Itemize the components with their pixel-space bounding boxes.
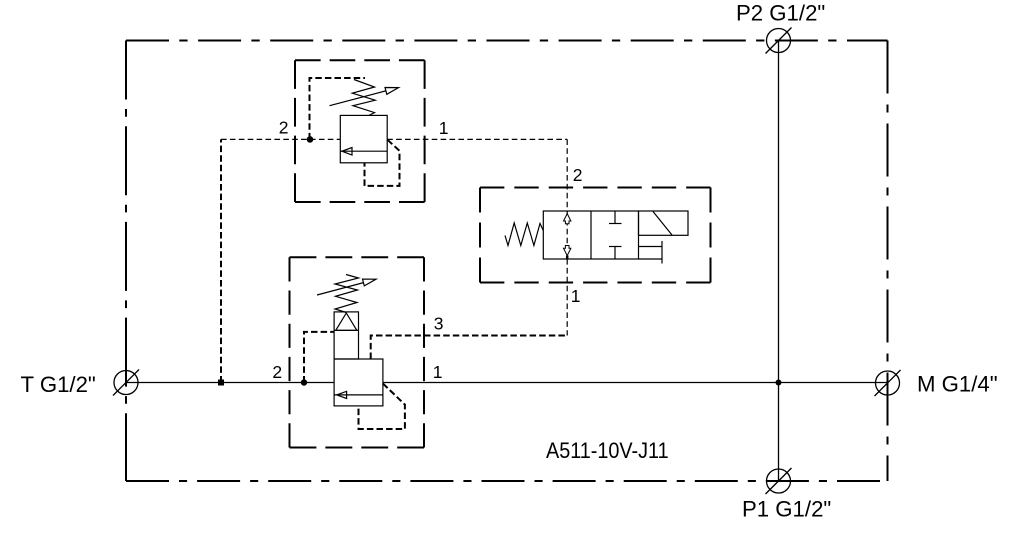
DV blocked port bottom (609, 247, 622, 260)
svg-text:2: 2 (573, 165, 583, 185)
svg-text:T G1/2": T G1/2" (21, 372, 96, 397)
RV2 pilot column (334, 312, 358, 359)
directional valve DV enclosure (480, 188, 711, 283)
RV2 spring (335, 275, 359, 313)
junction dot main/P line (776, 380, 782, 386)
wire valve1 port2 dashed (221, 138, 340, 140)
DV flow path dashed through square (566, 211, 568, 259)
enclosure border bottom (dash-dot) (126, 480, 888, 482)
wire main line T to valve body (126, 382, 334, 384)
RV1 flow line (340, 150, 387, 152)
wire directional valve port1 down (566, 259, 568, 336)
RV2 pilot line (304, 332, 334, 383)
wire main line valve body to M (383, 382, 888, 384)
RV2 flow line (334, 394, 383, 396)
port M (875, 370, 901, 396)
DV flow arrow up (564, 214, 571, 224)
enclosure border top (dash-dot) (126, 40, 888, 42)
svg-text:1: 1 (571, 286, 581, 306)
svg-text:2: 2 (272, 362, 282, 382)
RV2 triangle base line (334, 329, 358, 331)
RV1 pilot line to spring (310, 78, 366, 139)
DV flow arrow down (564, 246, 571, 256)
port P2 (766, 28, 792, 54)
svg-text:P1 G1/2": P1 G1/2" (742, 497, 831, 522)
port P1 (766, 468, 792, 494)
svg-text:1: 1 (433, 362, 443, 382)
RV2 adjustment arrow (317, 279, 376, 295)
DV blocked port top (609, 211, 622, 224)
wire P2-P1 vertical (778, 41, 780, 482)
svg-text:3: 3 (434, 313, 444, 333)
DV solenoid box (639, 211, 689, 235)
junction node lower valve pilot (301, 379, 307, 385)
svg-text:2: 2 (279, 118, 289, 138)
enclosure border right (dash-dot) (887, 41, 889, 482)
RV1 drain dashed (365, 140, 400, 186)
wire down to directional valve port2 (566, 139, 568, 211)
DV position separator (590, 211, 592, 259)
RV1 body square (340, 115, 387, 162)
RV2 poppet triangle (336, 313, 357, 330)
RV1 adjustment arrow (330, 88, 399, 106)
port T (113, 370, 139, 396)
svg-text:P2 G1/2": P2 G1/2" (736, 1, 825, 26)
wire line 3 dashed (371, 336, 567, 360)
junction node pilot takeoff (218, 380, 224, 386)
svg-text:A511-10V-J11: A511-10V-J11 (546, 439, 669, 463)
svg-text:M G1/4": M G1/4" (917, 372, 998, 397)
RV1 flow arrow (open, left) (342, 148, 352, 156)
RV2 flow arrow (open, left) (337, 391, 347, 398)
wire valve1 port1 dashed (387, 138, 567, 140)
relief valve RV1 enclosure (295, 60, 425, 202)
pilot line vertical (port2 remote) (220, 139, 222, 382)
DV return spring (505, 223, 543, 246)
DV arrow tip fill (566, 256, 569, 260)
DV electrical connector (639, 241, 663, 264)
RV2 drain dashed (359, 384, 405, 430)
RV1 spring (352, 80, 375, 116)
RV1 node port2 (307, 136, 314, 143)
relief valve RV2 enclosure (290, 257, 425, 447)
DV body outline (543, 211, 638, 259)
enclosure border left (dash-dot) (125, 41, 127, 482)
RV2 body square (334, 359, 383, 406)
svg-text:1: 1 (439, 118, 449, 138)
